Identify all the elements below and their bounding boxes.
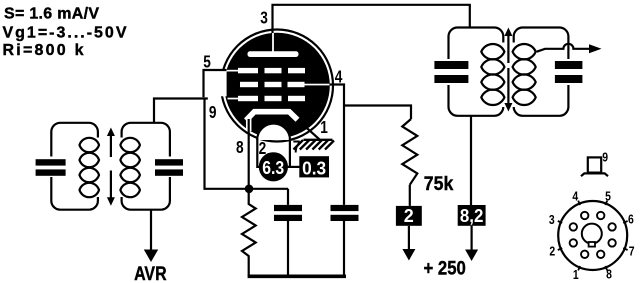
heater voltage 6.3 [259, 152, 288, 181]
heater dome [257, 124, 290, 140]
grid notch pins 5/9 [204, 70, 227, 97]
ground rail [248, 274, 346, 278]
box 8,2 [458, 205, 486, 226]
tube U1 envelope outer circle [221, 30, 333, 142]
grid g3 row (white dashes) [227, 68, 306, 73]
svg-text:5: 5 [605, 189, 611, 204]
wire T2 primary bottom to box 8,2 [470, 116, 472, 205]
svg-text:6: 6 [628, 212, 634, 227]
heater current 0.3 [299, 156, 329, 178]
AVR wire and arrow [144, 210, 158, 262]
svg-text:2: 2 [404, 206, 414, 226]
grid g1 row (white dashes) [228, 96, 306, 101]
svg-text:4: 4 [335, 66, 343, 86]
svg-text:4: 4 [572, 189, 578, 204]
wire 6.3 to 0.3 [287, 166, 301, 168]
socket pin holes [570, 212, 616, 258]
junction dot [245, 185, 254, 194]
T1 right tank circuit [119, 123, 174, 210]
svg-text:9: 9 [209, 102, 217, 122]
bypass capacitor C3 [274, 189, 302, 276]
wire screen to 75k resistor [344, 106, 411, 120]
socket pin number labels [549, 189, 635, 283]
svg-text:75k: 75k [424, 173, 454, 195]
heater wire pin 2 [257, 139, 260, 167]
T2 coupling arrow up [504, 28, 512, 64]
supply arrow under box 2 [402, 249, 415, 261]
tube U1 envelope disc [224, 33, 330, 139]
socket center key hole [582, 224, 602, 247]
top cap symbol pin 9 [581, 150, 608, 177]
anode plate (white) [248, 51, 299, 57]
wire grid pins 5/9 to T1 secondary top [154, 99, 208, 123]
pin 8 cathode wire [246, 117, 252, 131]
T2 output wire with crossover [537, 44, 602, 53]
svg-text:3: 3 [260, 7, 268, 27]
wire pin4 screen to resistor branch [329, 85, 344, 205]
T1 secondary coil L2 [120, 138, 139, 197]
svg-text:1: 1 [573, 267, 579, 282]
pin 1 wire to chassis [306, 127, 319, 139]
wire anode to top rail to T2 [273, 5, 470, 34]
screen resistor R2 75k [402, 119, 417, 185]
socket outer circle [558, 201, 627, 270]
svg-text:8,2: 8,2 [460, 206, 484, 226]
svg-text:2: 2 [549, 243, 555, 258]
grid g2 row (white dashes) [240, 82, 330, 87]
T2 primary coil L3 [481, 44, 504, 105]
cathode resistor R1 [242, 189, 256, 276]
cathode (white) [246, 112, 298, 121]
T2 left tank circuit [444, 28, 508, 116]
wire notch to cathode junction [205, 99, 289, 189]
decoupling capacitor C4 [331, 205, 359, 276]
socket ticks [558, 201, 628, 271]
T2 coupling arrow down [504, 68, 512, 112]
svg-text:+ 250: + 250 [424, 259, 466, 280]
svg-text:0.3: 0.3 [302, 159, 326, 179]
T2 capacitor C6 plates [555, 61, 583, 83]
svg-text:S= 1.6 mA/V: S= 1.6 mA/V [4, 6, 99, 23]
svg-text:3: 3 [549, 212, 555, 227]
chassis ground hatching [294, 140, 335, 150]
T1 coupling arrow down [107, 171, 115, 206]
T2 right tank circuit [509, 28, 573, 116]
anode lead (white) [272, 33, 274, 52]
T1 primary coil L1 [80, 138, 100, 197]
svg-text:6.3: 6.3 [262, 158, 284, 178]
svg-text:8: 8 [236, 137, 244, 157]
T2 capacitor C5 plates [434, 61, 468, 83]
supply arrow under box 8,2 [465, 250, 478, 262]
T1 capacitor C1 plates [36, 159, 66, 176]
T1 coupling arrow up [107, 128, 115, 158]
box 2 [396, 206, 422, 226]
svg-text:Vg1=-3...-50V: Vg1=-3...-50V [3, 24, 127, 41]
svg-text:7: 7 [293, 136, 301, 156]
svg-text:8: 8 [606, 267, 612, 282]
svg-text:9: 9 [602, 150, 608, 165]
svg-text:1: 1 [320, 117, 328, 137]
T2 secondary coil L4 [513, 44, 536, 105]
T1 capacitor C2 plates [155, 159, 183, 176]
wire box 2 to supply arrow [408, 226, 410, 250]
svg-text:AVR: AVR [134, 264, 167, 283]
wire box 8,2 to supply arrow [471, 226, 473, 251]
svg-text:5: 5 [203, 51, 211, 71]
heater wire pin 7 [289, 139, 291, 167]
svg-text:7: 7 [629, 243, 635, 258]
T1 left tank circuit [47, 123, 103, 210]
wire resistor to box 2 [409, 185, 411, 206]
